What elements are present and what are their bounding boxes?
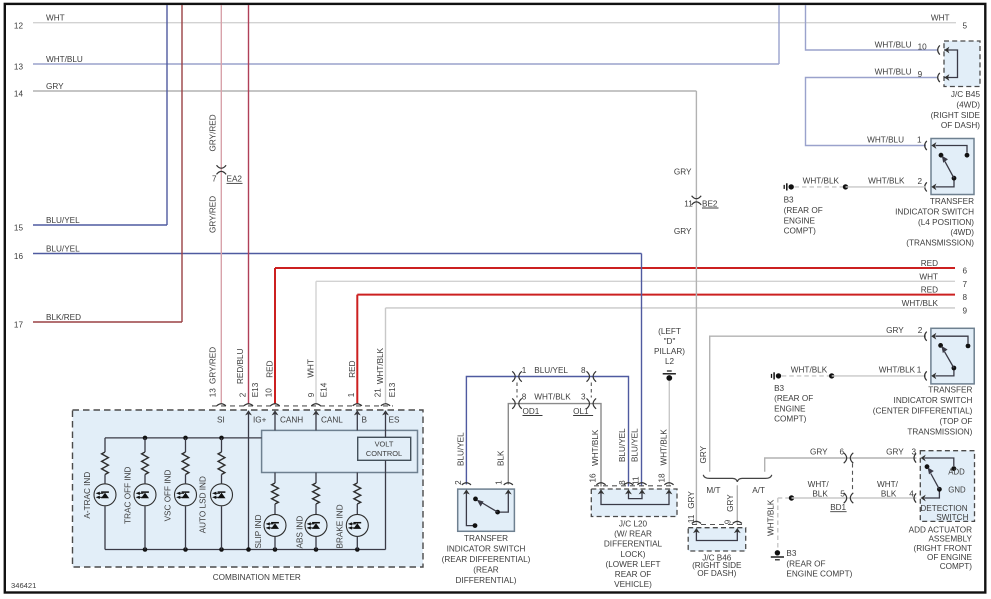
junction bbox=[355, 547, 360, 552]
svg-text:ABS IND: ABS IND bbox=[295, 516, 304, 549]
svg-text:BE2: BE2 bbox=[702, 199, 718, 208]
connector pin 4 bbox=[914, 493, 916, 502]
wire GRY brace stem to J/C B46 pin 9 bbox=[736, 485, 738, 525]
connector meter pin CANL bbox=[311, 404, 320, 406]
svg-text:9: 9 bbox=[724, 519, 733, 524]
svg-text:WHT: WHT bbox=[919, 272, 938, 281]
svg-text:BLK: BLK bbox=[881, 490, 897, 499]
wire WHT/BLU vertical + to J/C B45 pin 10 bbox=[806, 5, 939, 50]
ground B3 (rear of engine compt) upper bbox=[789, 184, 794, 189]
svg-text:EA2: EA2 bbox=[227, 175, 243, 184]
svg-text:E13: E13 bbox=[388, 382, 397, 397]
splice bbox=[829, 373, 834, 378]
connector B46 pin 9 bbox=[733, 521, 742, 523]
svg-text:13: 13 bbox=[209, 388, 218, 398]
svg-text:8: 8 bbox=[522, 392, 527, 401]
svg-text:8: 8 bbox=[581, 366, 586, 375]
svg-text:DIFFERENTIAL): DIFFERENTIAL) bbox=[456, 576, 517, 585]
svg-text:21: 21 bbox=[373, 388, 382, 398]
indicator branch AUTO LSD IND bbox=[221, 438, 223, 452]
wire RED row6 drop to meter pin 10 bbox=[274, 268, 276, 404]
svg-text:ES: ES bbox=[389, 416, 400, 425]
svg-text:8: 8 bbox=[963, 293, 968, 302]
junction bbox=[183, 547, 188, 552]
connector B46 pin 11 bbox=[692, 521, 701, 523]
svg-text:WHT/BLK: WHT/BLK bbox=[376, 347, 385, 384]
svg-text:4: 4 bbox=[909, 489, 914, 498]
svg-text:OF DASH): OF DASH) bbox=[697, 569, 736, 578]
detection switch box bbox=[920, 451, 974, 522]
svg-text:IG+: IG+ bbox=[253, 416, 267, 425]
indicator branch A-TRAC IND bbox=[104, 438, 106, 452]
svg-text:1: 1 bbox=[522, 366, 527, 375]
resistor BRAKE IND bbox=[354, 483, 361, 504]
wire GRY A/T branch bbox=[765, 458, 846, 472]
svg-text:CANL: CANL bbox=[321, 416, 343, 425]
svg-text:CONTROL: CONTROL bbox=[366, 449, 402, 458]
svg-text:1: 1 bbox=[495, 480, 504, 485]
svg-text:INDICATOR SWITCH: INDICATOR SWITCH bbox=[894, 396, 973, 405]
svg-text:WHT/BLK: WHT/BLK bbox=[803, 177, 840, 186]
wire RED row 8 bbox=[357, 294, 955, 296]
svg-text:RED: RED bbox=[348, 360, 357, 377]
switch internal detection bbox=[925, 458, 954, 466]
svg-text:(REAR DIFFERENTIAL): (REAR DIFFERENTIAL) bbox=[442, 555, 531, 564]
svg-text:B: B bbox=[362, 416, 368, 425]
svg-text:WHT: WHT bbox=[931, 14, 950, 23]
svg-text:B3: B3 bbox=[774, 384, 784, 393]
junction bbox=[314, 547, 319, 552]
svg-text:INDICATOR SWITCH: INDICATOR SWITCH bbox=[447, 545, 526, 554]
svg-text:GRY: GRY bbox=[726, 494, 735, 512]
svg-text:INDICATOR SWITCH: INDICATOR SWITCH bbox=[895, 207, 974, 216]
svg-text:GRY/RED: GRY/RED bbox=[209, 196, 218, 233]
svg-text:(LEFT: (LEFT bbox=[658, 327, 681, 336]
transfer indicator switch (center differential) box bbox=[931, 328, 974, 384]
svg-text:L2: L2 bbox=[665, 357, 675, 366]
LED AUTO LSD IND bbox=[211, 484, 233, 506]
resistor VSC OFF IND bbox=[182, 452, 189, 475]
wire GRY row 14 bbox=[33, 90, 696, 92]
svg-text:COMBINATION METER: COMBINATION METER bbox=[213, 573, 301, 582]
connector BD1 pin 6 bbox=[844, 453, 847, 463]
wire WHT/BLK row 9 bbox=[386, 307, 956, 309]
svg-text:(W/ REAR: (W/ REAR bbox=[614, 530, 652, 539]
svg-text:BLU/YEL: BLU/YEL bbox=[46, 245, 80, 254]
svg-text:(REAR OF: (REAR OF bbox=[786, 559, 825, 568]
svg-text:WHT/BLK: WHT/BLK bbox=[660, 429, 669, 466]
LED A-TRAC IND bbox=[94, 484, 116, 506]
svg-text:WHT/BLK: WHT/BLK bbox=[902, 299, 939, 308]
svg-text:GRY: GRY bbox=[886, 326, 904, 335]
wire GRY to center diff switch pin 2 bbox=[710, 336, 926, 472]
svg-text:TRANSFER: TRANSFER bbox=[930, 197, 974, 206]
wire BLK (switch pin1) / WHT/BLK to J/C L20 pin 16 bbox=[508, 404, 601, 487]
svg-text:(TOP OF: (TOP OF bbox=[939, 417, 972, 426]
svg-text:BLK/RED: BLK/RED bbox=[46, 313, 81, 322]
wire WHT/BLK L2 to J/C L20 pin 18 bbox=[668, 381, 670, 487]
svg-text:1: 1 bbox=[347, 392, 356, 397]
LED ABS IND bbox=[305, 514, 327, 536]
svg-text:WHT/BLU: WHT/BLU bbox=[46, 55, 83, 64]
svg-text:3: 3 bbox=[912, 448, 917, 457]
svg-text:VSC OFF IND: VSC OFF IND bbox=[164, 469, 173, 521]
connector pin 1 bbox=[925, 371, 927, 380]
resistor AUTO LSD IND bbox=[218, 452, 225, 475]
svg-text:2: 2 bbox=[918, 326, 923, 335]
connector pin 10 bbox=[938, 45, 940, 54]
wire WHT row 12 bbox=[33, 22, 956, 24]
indicator branch SLIP IND bbox=[274, 473, 276, 484]
wire GRY connector 6 to 3 bbox=[846, 457, 917, 459]
svg-text:GRY: GRY bbox=[886, 448, 904, 457]
resistor SLIP IND bbox=[272, 483, 279, 504]
wire BLU/YEL row 16 bbox=[33, 253, 642, 255]
junction connector J/C L20 bbox=[591, 489, 677, 517]
svg-text:E14: E14 bbox=[320, 382, 329, 397]
svg-text:WHT/BLK: WHT/BLK bbox=[766, 499, 775, 536]
wire CANL internal bbox=[315, 412, 317, 430]
connector EA2 pin 7 bbox=[217, 165, 227, 168]
svg-text:BLU/YEL: BLU/YEL bbox=[46, 216, 80, 225]
svg-text:RED: RED bbox=[266, 360, 275, 377]
svg-text:WHT/BLU: WHT/BLU bbox=[875, 68, 912, 77]
svg-text:17: 17 bbox=[14, 321, 24, 330]
svg-text:VEHICLE): VEHICLE) bbox=[614, 580, 652, 589]
connector links OD1 OL1 bbox=[516, 383, 518, 398]
wire ES volt control to rail bbox=[385, 460, 387, 549]
LED VSC OFF IND bbox=[175, 484, 197, 506]
svg-text:OF DASH): OF DASH) bbox=[941, 121, 980, 130]
svg-text:(CENTER DIFFERENTIAL): (CENTER DIFFERENTIAL) bbox=[873, 407, 973, 416]
svg-text:3: 3 bbox=[581, 392, 586, 401]
svg-text:GRY/RED: GRY/RED bbox=[209, 114, 218, 151]
resistor ABS IND bbox=[313, 483, 320, 504]
svg-text:COMPT): COMPT) bbox=[940, 562, 973, 571]
splice bbox=[789, 495, 794, 500]
svg-text:WHT/BLK: WHT/BLK bbox=[791, 366, 828, 375]
brace M/T A/T bbox=[703, 475, 772, 482]
svg-text:9: 9 bbox=[307, 392, 316, 397]
svg-text:BD1: BD1 bbox=[830, 503, 846, 512]
svg-text:5: 5 bbox=[840, 489, 845, 498]
svg-text:(L4 POSITION): (L4 POSITION) bbox=[918, 218, 974, 227]
svg-text:B3: B3 bbox=[784, 196, 794, 205]
svg-text:5: 5 bbox=[963, 21, 968, 30]
wire BLK/RED vertical to row 17 bbox=[181, 5, 183, 322]
wire RED/BLU vertical to meter pin 2 bbox=[248, 5, 250, 404]
indicator branch ABS IND bbox=[315, 473, 317, 484]
svg-text:SI: SI bbox=[217, 416, 225, 425]
junction bbox=[246, 547, 251, 552]
connector pin 2 bbox=[925, 332, 927, 341]
connector meter pin IG+ bbox=[244, 404, 253, 406]
switch internal L4 bbox=[936, 146, 968, 153]
svg-text:(4WD): (4WD) bbox=[956, 100, 980, 109]
svg-text:6: 6 bbox=[963, 267, 968, 276]
svg-text:ENGINE: ENGINE bbox=[784, 216, 816, 225]
meter top rail bbox=[105, 437, 262, 439]
svg-text:7: 7 bbox=[963, 280, 968, 289]
svg-text:AUTO LSD IND: AUTO LSD IND bbox=[199, 476, 208, 533]
svg-text:BLU/YEL: BLU/YEL bbox=[630, 428, 639, 462]
wire CANH internal bbox=[274, 412, 276, 430]
junction bbox=[273, 547, 278, 552]
svg-text:BLK: BLK bbox=[496, 450, 505, 466]
ground B3 lower bbox=[775, 550, 780, 555]
junction connector J/C B45 bbox=[944, 41, 980, 87]
svg-text:CANH: CANH bbox=[280, 416, 303, 425]
junction bbox=[143, 436, 148, 441]
svg-text:A/T: A/T bbox=[752, 486, 765, 495]
svg-text:SLIP IND: SLIP IND bbox=[254, 514, 263, 548]
svg-text:7: 7 bbox=[212, 175, 217, 184]
connector link BD1 bbox=[852, 464, 854, 493]
svg-text:VOLT: VOLT bbox=[375, 440, 394, 449]
svg-text:DIFFERENTIAL: DIFFERENTIAL bbox=[604, 540, 663, 549]
connector pin 3 bbox=[914, 453, 916, 462]
svg-text:RED: RED bbox=[921, 286, 938, 295]
svg-text:WHT/: WHT/ bbox=[808, 480, 830, 489]
svg-text:DETECTION: DETECTION bbox=[920, 504, 967, 513]
combination meter box bbox=[73, 410, 424, 567]
svg-text:2: 2 bbox=[454, 480, 463, 485]
svg-text:2: 2 bbox=[918, 177, 923, 186]
svg-text:ENGINE: ENGINE bbox=[774, 404, 806, 413]
svg-text:ENGINE COMPT): ENGINE COMPT) bbox=[786, 570, 852, 579]
svg-text:RED/BLU: RED/BLU bbox=[236, 348, 245, 384]
wire WHT/BLU row 13 bbox=[33, 63, 779, 65]
junction bbox=[219, 436, 224, 441]
wire WHT/BLK to center diff pin 1 bbox=[832, 375, 926, 377]
svg-text:"D": "D" bbox=[664, 337, 676, 346]
svg-text:(RIGHT FRONT: (RIGHT FRONT bbox=[913, 544, 972, 553]
meter bottom rail bbox=[105, 549, 386, 551]
wire BLU/YEL row16 drop bbox=[641, 254, 643, 487]
wire RED row8 drop to meter pin 1 bbox=[356, 295, 358, 405]
svg-text:ADD: ADD bbox=[948, 467, 965, 476]
svg-text:GRY: GRY bbox=[674, 227, 692, 236]
junction bbox=[143, 547, 148, 552]
indicator branch VSC OFF IND bbox=[185, 438, 187, 452]
svg-text:GRY: GRY bbox=[46, 82, 64, 91]
wire WHT/BLU J/C B45 pin 9 to switch pin 1 bbox=[806, 78, 939, 146]
resistor TRAC OFF IND bbox=[142, 452, 149, 475]
svg-text:18: 18 bbox=[657, 473, 666, 483]
connector BE2 pin 11 bbox=[692, 196, 702, 199]
svg-text:ASSEMBLY: ASSEMBLY bbox=[928, 535, 972, 544]
svg-text:16: 16 bbox=[588, 473, 597, 483]
svg-text:6: 6 bbox=[840, 448, 845, 457]
resistor A-TRAC IND bbox=[102, 452, 109, 475]
svg-text:(RIGHT SIDE: (RIGHT SIDE bbox=[931, 111, 981, 120]
svg-text:12: 12 bbox=[14, 21, 24, 30]
connector pin 1 bbox=[925, 141, 927, 150]
ground L2 bbox=[666, 375, 672, 381]
connector L20 pin 18 bbox=[664, 483, 673, 485]
svg-text:(4WD): (4WD) bbox=[950, 228, 974, 237]
wire WHT row7 drop to meter pin 9 bbox=[315, 281, 317, 404]
svg-text:10: 10 bbox=[265, 388, 274, 398]
wire WHT/BLK dashed drop to ground B3 bbox=[777, 498, 779, 550]
svg-text:1: 1 bbox=[917, 366, 922, 375]
wire ES internal to volt control bbox=[385, 412, 387, 437]
svg-text:A-TRAC IND: A-TRAC IND bbox=[83, 472, 92, 519]
svg-text:TRANSFER: TRANSFER bbox=[928, 386, 972, 395]
svg-text:J/C B45: J/C B45 bbox=[951, 90, 981, 99]
junction bbox=[219, 547, 224, 552]
svg-text:(REAR OF: (REAR OF bbox=[774, 394, 813, 403]
svg-text:ADD ACTUATOR: ADD ACTUATOR bbox=[909, 525, 972, 534]
svg-text:GRY: GRY bbox=[687, 491, 696, 509]
connector meter pin CANH bbox=[270, 404, 279, 406]
junction bbox=[183, 436, 188, 441]
svg-text:WHT/BLK: WHT/BLK bbox=[879, 366, 916, 375]
svg-text:9: 9 bbox=[963, 307, 968, 316]
wire WHT/BLK dashed from B3 bbox=[795, 186, 846, 188]
svg-text:BLU/YEL: BLU/YEL bbox=[618, 428, 627, 462]
svg-text:346421: 346421 bbox=[11, 581, 36, 590]
connector meter pin SI bbox=[217, 404, 226, 406]
svg-text:PILLAR): PILLAR) bbox=[654, 347, 685, 356]
svg-text:WHT: WHT bbox=[306, 359, 315, 378]
svg-text:9: 9 bbox=[918, 70, 923, 79]
svg-text:WHT/BLK: WHT/BLK bbox=[868, 177, 905, 186]
svg-text:OF ENGINE: OF ENGINE bbox=[927, 553, 973, 562]
wire WHT/BLK row9 drop to meter pin 21 bbox=[385, 308, 387, 404]
wire WHT/BLU vertical to row 13 bbox=[778, 5, 780, 64]
LED SLIP IND bbox=[264, 514, 286, 536]
svg-text:WHT/BLU: WHT/BLU bbox=[867, 135, 904, 144]
svg-text:14: 14 bbox=[14, 90, 24, 99]
wire WHT row 7 bbox=[316, 280, 955, 282]
connector OL1 pin 8 bbox=[587, 371, 590, 381]
svg-text:SWITCH: SWITCH bbox=[936, 513, 968, 522]
indicator branch TRAC OFF IND bbox=[144, 438, 146, 452]
svg-text:11: 11 bbox=[631, 476, 640, 485]
switch internal center diff bbox=[935, 336, 968, 343]
svg-text:BRAKE IND: BRAKE IND bbox=[335, 504, 344, 548]
splice bbox=[843, 184, 848, 189]
svg-text:M/T: M/T bbox=[706, 486, 720, 495]
ground B3 (rear of engine compt) middle bbox=[776, 373, 781, 378]
svg-text:13: 13 bbox=[14, 63, 24, 72]
connector pin 2 bbox=[925, 182, 927, 191]
svg-text:GND: GND bbox=[948, 485, 966, 494]
svg-text:J/C L20: J/C L20 bbox=[619, 520, 648, 529]
connector pin 9 bbox=[938, 73, 940, 82]
svg-text:BLU/YEL: BLU/YEL bbox=[456, 432, 465, 466]
svg-text:TRANSFER: TRANSFER bbox=[464, 534, 508, 543]
connector OL1 pin 3 bbox=[587, 398, 590, 408]
indicator branch BRAKE IND bbox=[356, 473, 358, 484]
svg-text:8: 8 bbox=[618, 480, 627, 485]
svg-text:WHT/BLK: WHT/BLK bbox=[534, 392, 571, 401]
svg-text:B3: B3 bbox=[786, 549, 796, 558]
svg-text:15: 15 bbox=[14, 224, 24, 233]
wire WHT/BLK dashed bbox=[782, 375, 832, 377]
wire RED row 6 bbox=[275, 267, 955, 269]
svg-text:GRY: GRY bbox=[810, 448, 828, 457]
svg-text:1: 1 bbox=[917, 136, 922, 145]
connector L20 pin 11 bbox=[637, 483, 646, 485]
wire WHT/BLK to detection switch pin 4 bbox=[792, 497, 917, 499]
wire B internal bbox=[356, 412, 358, 430]
svg-text:BLU/YEL: BLU/YEL bbox=[534, 366, 568, 375]
volt control box bbox=[358, 437, 411, 460]
wire BLK/RED row 17 bbox=[33, 321, 182, 323]
svg-text:(REAR: (REAR bbox=[473, 565, 499, 574]
svg-text:LOCK): LOCK) bbox=[620, 550, 645, 559]
connector meter pin B bbox=[353, 404, 362, 406]
svg-text:11: 11 bbox=[687, 514, 696, 523]
svg-text:16: 16 bbox=[14, 252, 24, 261]
meter control unit box bbox=[262, 430, 418, 472]
svg-text:COMPT): COMPT) bbox=[774, 415, 807, 424]
LED TRAC OFF IND bbox=[134, 484, 156, 506]
svg-text:2: 2 bbox=[239, 392, 248, 397]
svg-text:OL1: OL1 bbox=[573, 407, 589, 416]
svg-text:TRAC OFF IND: TRAC OFF IND bbox=[124, 466, 133, 523]
connector L20 pin 8 bbox=[624, 483, 633, 485]
wire BLU/YEL row 15 bbox=[33, 224, 167, 226]
svg-text:GRY: GRY bbox=[674, 167, 692, 176]
svg-text:WHT/BLK: WHT/BLK bbox=[591, 429, 600, 466]
wire GRY/RED vertical to meter pin 13 bbox=[220, 5, 222, 404]
svg-text:GRY: GRY bbox=[699, 445, 708, 463]
svg-text:WHT/: WHT/ bbox=[877, 480, 899, 489]
svg-text:(REAR OF: (REAR OF bbox=[784, 206, 823, 215]
connector pin 2 bbox=[462, 483, 471, 485]
wire GRY row14 drop to J/C B46 pin 11 bbox=[695, 91, 697, 525]
svg-text:RED: RED bbox=[921, 259, 938, 268]
svg-text:WHT: WHT bbox=[46, 14, 65, 23]
connector BD1 pin 5 bbox=[844, 493, 847, 503]
wire WHT/BLK to L4 switch pin 2 bbox=[846, 186, 927, 188]
wire BLU/YEL vertical to row 15 bbox=[166, 5, 168, 225]
meter connector dashed strip bbox=[212, 405, 393, 407]
connector L20 pin 16 bbox=[596, 483, 605, 485]
svg-text:OD1: OD1 bbox=[523, 407, 540, 416]
connector meter pin ES bbox=[381, 404, 390, 406]
svg-text:(TRANSMISSION): (TRANSMISSION) bbox=[906, 239, 974, 248]
svg-text:WHT/BLU: WHT/BLU bbox=[875, 40, 912, 49]
svg-text:11: 11 bbox=[684, 199, 693, 208]
connector OD1 pin 8 bbox=[512, 398, 515, 408]
transfer indicator switch (L4 position) box bbox=[931, 139, 974, 195]
connector pin 1 bbox=[504, 483, 513, 485]
svg-text:BLK: BLK bbox=[812, 490, 828, 499]
svg-text:COMPT): COMPT) bbox=[784, 227, 817, 236]
svg-text:GRY/RED: GRY/RED bbox=[209, 347, 218, 384]
junction connector J/C B46 bbox=[688, 528, 746, 551]
svg-text:10: 10 bbox=[918, 42, 928, 51]
svg-text:E13: E13 bbox=[251, 382, 260, 397]
switch internal rear diff bbox=[466, 493, 473, 526]
LED BRAKE IND bbox=[346, 514, 368, 536]
wire IG+ internal bbox=[248, 412, 250, 550]
svg-text:TRANSMISSION): TRANSMISSION) bbox=[907, 427, 972, 436]
svg-text:REAR OF: REAR OF bbox=[615, 570, 651, 579]
svg-text:(LOWER LEFT: (LOWER LEFT bbox=[605, 560, 660, 569]
connector OD1 pin 1 bbox=[512, 371, 515, 381]
transfer indicator switch (rear differential) box bbox=[458, 489, 515, 531]
wire BLU/YEL loop (switch pin2 to J/C L20 pin 8) bbox=[466, 377, 628, 487]
